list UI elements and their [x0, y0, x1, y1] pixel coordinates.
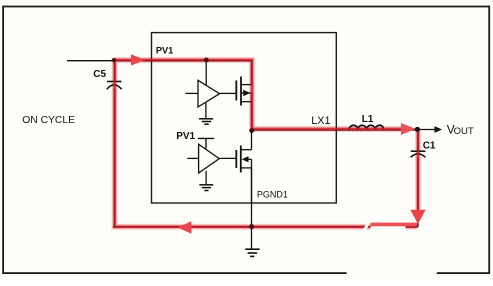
op-amp driver U1A (high side): [185, 60, 219, 118]
red arrow (right drop, downward): [410, 210, 425, 224]
red arrow (top rail, rightward): [131, 54, 145, 65]
inductor L1: [349, 125, 384, 129]
capacitor C5: [107, 82, 122, 90]
wire bottom return rail: [113, 226, 418, 228]
red current path highlight (under layer): [115, 58, 418, 227]
node LX1 junction dot: [249, 128, 254, 133]
svg-text:OUT: OUT: [454, 126, 474, 137]
red path core strokes: [115, 58, 418, 227]
wire C5 bottom to return rail: [114, 89, 116, 227]
ground (driver U1A): [199, 119, 213, 124]
svg-text:PGND1: PGND1: [257, 190, 288, 200]
wire C1 bottom to return rail: [417, 157, 419, 226]
node VOUT junction dot: [415, 127, 420, 132]
svg-text:LX1: LX1: [311, 115, 330, 127]
svg-text:PV1: PV1: [176, 131, 195, 142]
wire C5 top branch: [114, 61, 116, 82]
wire LX1 node to output: [252, 129, 419, 131]
white erasure slash on return rail: [364, 221, 370, 232]
node ground junction dot: [249, 224, 254, 229]
VOUT arrowhead: [435, 126, 443, 133]
wire C1 top branch: [417, 130, 419, 151]
svg-text:PV1: PV1: [156, 45, 173, 55]
arrow of Q1: [243, 90, 250, 96]
white erasure patch under return rail: [371, 226, 406, 234]
transistor Q2 (low-side FET): [219, 131, 251, 204]
arrow of Q2: [242, 156, 249, 162]
node driver supply junction dot: [204, 58, 209, 63]
node PV1 junction dot: [112, 58, 116, 62]
ground (driver U1B): [199, 185, 213, 191]
svg-text:L1: L1: [362, 114, 374, 125]
op-amp driver U1B (low side): [187, 144, 219, 184]
IC box U1: [152, 33, 337, 203]
wire partially erased return segment: [371, 223, 418, 227]
capacitor C1: [411, 151, 426, 157]
wire input feed to node PV1: [67, 60, 252, 62]
wire PGND1 to ground: [251, 168, 253, 249]
red arrow (LX output, rightward): [401, 123, 416, 135]
wire VOUT lead: [418, 129, 435, 131]
svg-text:C1: C1: [423, 140, 436, 151]
supply bar PV1 (lower driver): [198, 138, 214, 148]
transistor Q1 (high-side FET): [220, 61, 252, 131]
svg-text:ON CYCLE: ON CYCLE: [22, 115, 75, 126]
svg-text:C5: C5: [93, 69, 106, 80]
red arrow (bottom return, leftward): [178, 221, 192, 234]
ground (main, PGND1): [245, 249, 259, 256]
